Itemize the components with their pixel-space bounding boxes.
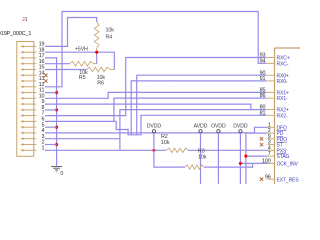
resistor R6 — [87, 67, 111, 72]
junction dot R4/+5VH — [95, 51, 98, 54]
svg-text:D19P_000C_1: D19P_000C_1 — [0, 31, 31, 37]
svg-text:RX1-: RX1- — [277, 96, 288, 102]
J1 pin 6 — [23, 120, 34, 122]
J1 pin 14 — [23, 74, 34, 76]
junction dot bus/J1.11 — [55, 91, 58, 94]
svg-text:18: 18 — [39, 47, 45, 53]
svg-text:EXT_RES: EXT_RES — [277, 177, 300, 183]
IC U1 left edge — [275, 48, 301, 184]
U1 pin 4 (PXS) — [268, 149, 275, 151]
wire J1.10 to U1.85 RX1+ — [45, 92, 266, 98]
svg-text:6: 6 — [41, 117, 44, 123]
svg-text:9: 9 — [41, 99, 44, 105]
wire to U1.86 RX1- — [114, 98, 266, 121]
svg-text:DVDD: DVDD — [233, 124, 248, 130]
J1 pin 10 — [23, 97, 34, 99]
wire J1.7 to U1.93 RXC+ — [45, 58, 266, 116]
svg-text:10: 10 — [39, 93, 45, 99]
resistor R4 — [94, 22, 99, 48]
wire J1.19 to R4 top — [45, 18, 97, 47]
wire DVDD stem to R3 — [154, 133, 185, 167]
svg-text:11: 11 — [39, 88, 44, 94]
svg-text:5: 5 — [41, 122, 44, 128]
svg-text:1: 1 — [41, 145, 44, 151]
J1 pin 2 — [23, 144, 34, 146]
no-connect X on J1 pin 14 — [44, 74, 47, 78]
svg-text:13: 13 — [39, 76, 45, 82]
J1 pin 13 — [23, 80, 34, 82]
svg-text:0: 0 — [60, 171, 63, 177]
svg-text:+5VH: +5VH — [75, 46, 88, 52]
svg-text:15: 15 — [39, 65, 45, 71]
U1 pin 2 (PD) — [268, 132, 275, 134]
U1 pin 94 (RXC-) — [266, 62, 274, 64]
svg-text:7: 7 — [41, 111, 44, 117]
svg-text:R6: R6 — [97, 81, 104, 87]
wire J1.3 drop to R2 net — [45, 139, 120, 151]
wire J1.8 to bus — [45, 109, 57, 111]
wire to U1.7 STAG — [246, 155, 268, 157]
wire DVDD right stem — [239, 133, 241, 184]
svg-text:7: 7 — [268, 151, 271, 157]
wire R3 to OCK_INV net — [204, 163, 253, 167]
junction dot STAG — [244, 155, 247, 158]
J1 pin 4 — [23, 132, 34, 134]
junction dot DVDD/OCK_INV — [239, 162, 242, 165]
svg-text:J1: J1 — [22, 17, 28, 23]
svg-text:R3: R3 — [198, 148, 205, 154]
J1 pin 16 — [23, 63, 34, 65]
no-connect X on U1 pin 3 — [260, 143, 263, 146]
U1 pin 90 (RX0+) — [266, 74, 274, 76]
U1 pin 3 (ST) — [268, 144, 275, 146]
connector J1 body — [17, 42, 34, 157]
resistor R5 — [70, 61, 94, 66]
svg-text:4: 4 — [41, 128, 44, 134]
wire J1.6 to U1.81 RX2- — [45, 115, 266, 135]
U1 pin 91 (RX0-) — [266, 80, 274, 82]
svg-text:R2: R2 — [161, 134, 168, 140]
svg-text:AVDD: AVDD — [194, 124, 208, 130]
svg-text:3: 3 — [41, 134, 44, 140]
svg-text:RXC-: RXC- — [277, 61, 289, 67]
wire J1.16 to R5 — [45, 63, 70, 65]
U1 pin 1 (DFO) — [268, 126, 275, 128]
wire junction to R5 right — [96, 52, 98, 64]
U1 pin 80 (RX2+) — [266, 109, 274, 111]
wire J1.18 +5VH net to R6 right — [45, 52, 114, 69]
svg-text:OVDD: OVDD — [211, 124, 226, 130]
svg-text:17: 17 — [39, 53, 45, 59]
wire J1.12 to U1.94 RXC- — [45, 12, 266, 87]
J1 pin 7 — [23, 115, 34, 117]
wire J1.5 to bus — [45, 126, 57, 128]
wire J1.11 to bus — [45, 92, 57, 94]
wire AVDD stem — [200, 133, 202, 184]
J1 pin 19 — [23, 45, 34, 47]
wire PD net vertical — [245, 133, 247, 184]
no-connect X on J1 pin 13 — [44, 79, 47, 82]
U1 pin 86 (RX1-) — [266, 97, 274, 99]
junction dot DVDD/R2 — [152, 149, 155, 152]
wire to U1.90 RX0+ — [137, 75, 267, 135]
svg-text:R4: R4 — [106, 34, 113, 40]
ground symbol 0 — [51, 166, 62, 171]
junction dot bus/J1.8 — [55, 108, 58, 111]
svg-text:12: 12 — [39, 82, 45, 88]
svg-text:RX2-: RX2- — [277, 113, 288, 119]
junction dot bus/J1.2 — [55, 143, 58, 146]
J1 pin 5 — [23, 126, 34, 128]
svg-text:10k: 10k — [198, 155, 207, 161]
U1 pin 81 (RX2-) — [266, 114, 274, 116]
junction dot bus/J1.5 — [55, 126, 58, 129]
wire J1.3 branch to U1.80 RX2+ — [120, 110, 266, 139]
no-connect X on U1 pin 9 — [260, 137, 263, 140]
J1 pin 3 — [23, 138, 34, 140]
wire OVDD stem — [217, 133, 219, 184]
wire R2 to U1.4 PXS — [188, 149, 267, 151]
svg-text:10k: 10k — [161, 140, 170, 146]
wire J1.1 to R2 — [45, 149, 166, 151]
svg-text:DVDD: DVDD — [147, 124, 162, 130]
U1 pin 96 (EXT_RES) — [268, 178, 275, 180]
svg-text:R5: R5 — [79, 75, 86, 81]
svg-text:2: 2 — [41, 140, 44, 146]
wire J1.15 to R6 — [45, 69, 87, 71]
resistor R2 — [166, 148, 188, 152]
svg-text:STAG: STAG — [277, 154, 290, 160]
U1 pin 7 (STAG) — [268, 155, 275, 157]
wire to U1.91 RX0- — [131, 81, 266, 135]
wire J1.9 jog to RX2+ net — [45, 104, 251, 110]
wire to U1.2 PD — [246, 132, 268, 134]
J1 pin 11 — [23, 92, 34, 94]
U1 pin 85 (RX1+) — [266, 91, 274, 93]
svg-text:14: 14 — [39, 70, 45, 76]
no-connect X on U1 pin 96 — [260, 178, 263, 181]
J1 pin 1 — [23, 149, 34, 151]
J1 pin 18 — [23, 51, 34, 53]
U1 pin 9 (PDO) — [268, 138, 275, 140]
svg-text:8: 8 — [41, 105, 44, 111]
J1 pin 12 — [23, 86, 34, 88]
svg-text:96: 96 — [265, 174, 271, 180]
svg-text:OCK_INV: OCK_INV — [277, 162, 299, 168]
J1 pin 15 — [23, 69, 34, 71]
U1 pin 93 (RXC+) — [266, 57, 274, 59]
wire to U1.100 OCK_INV — [240, 162, 267, 164]
svg-text:RX0-: RX0- — [277, 79, 288, 85]
resistor R3 — [185, 165, 204, 169]
wire J1.17 to ground bus — [45, 58, 57, 166]
U1 pin 100 (OCK_INV) — [268, 162, 275, 164]
svg-text:10k: 10k — [106, 28, 115, 34]
wire J1.4 to U1.1 DFO — [45, 127, 268, 133]
J1 pin 8 — [23, 109, 34, 111]
svg-text:16: 16 — [39, 59, 45, 65]
J1 pin 17 — [23, 57, 34, 59]
J1 pin 9 — [23, 103, 34, 105]
svg-text:19: 19 — [39, 42, 45, 48]
wire J1.2 to bus — [45, 144, 57, 146]
